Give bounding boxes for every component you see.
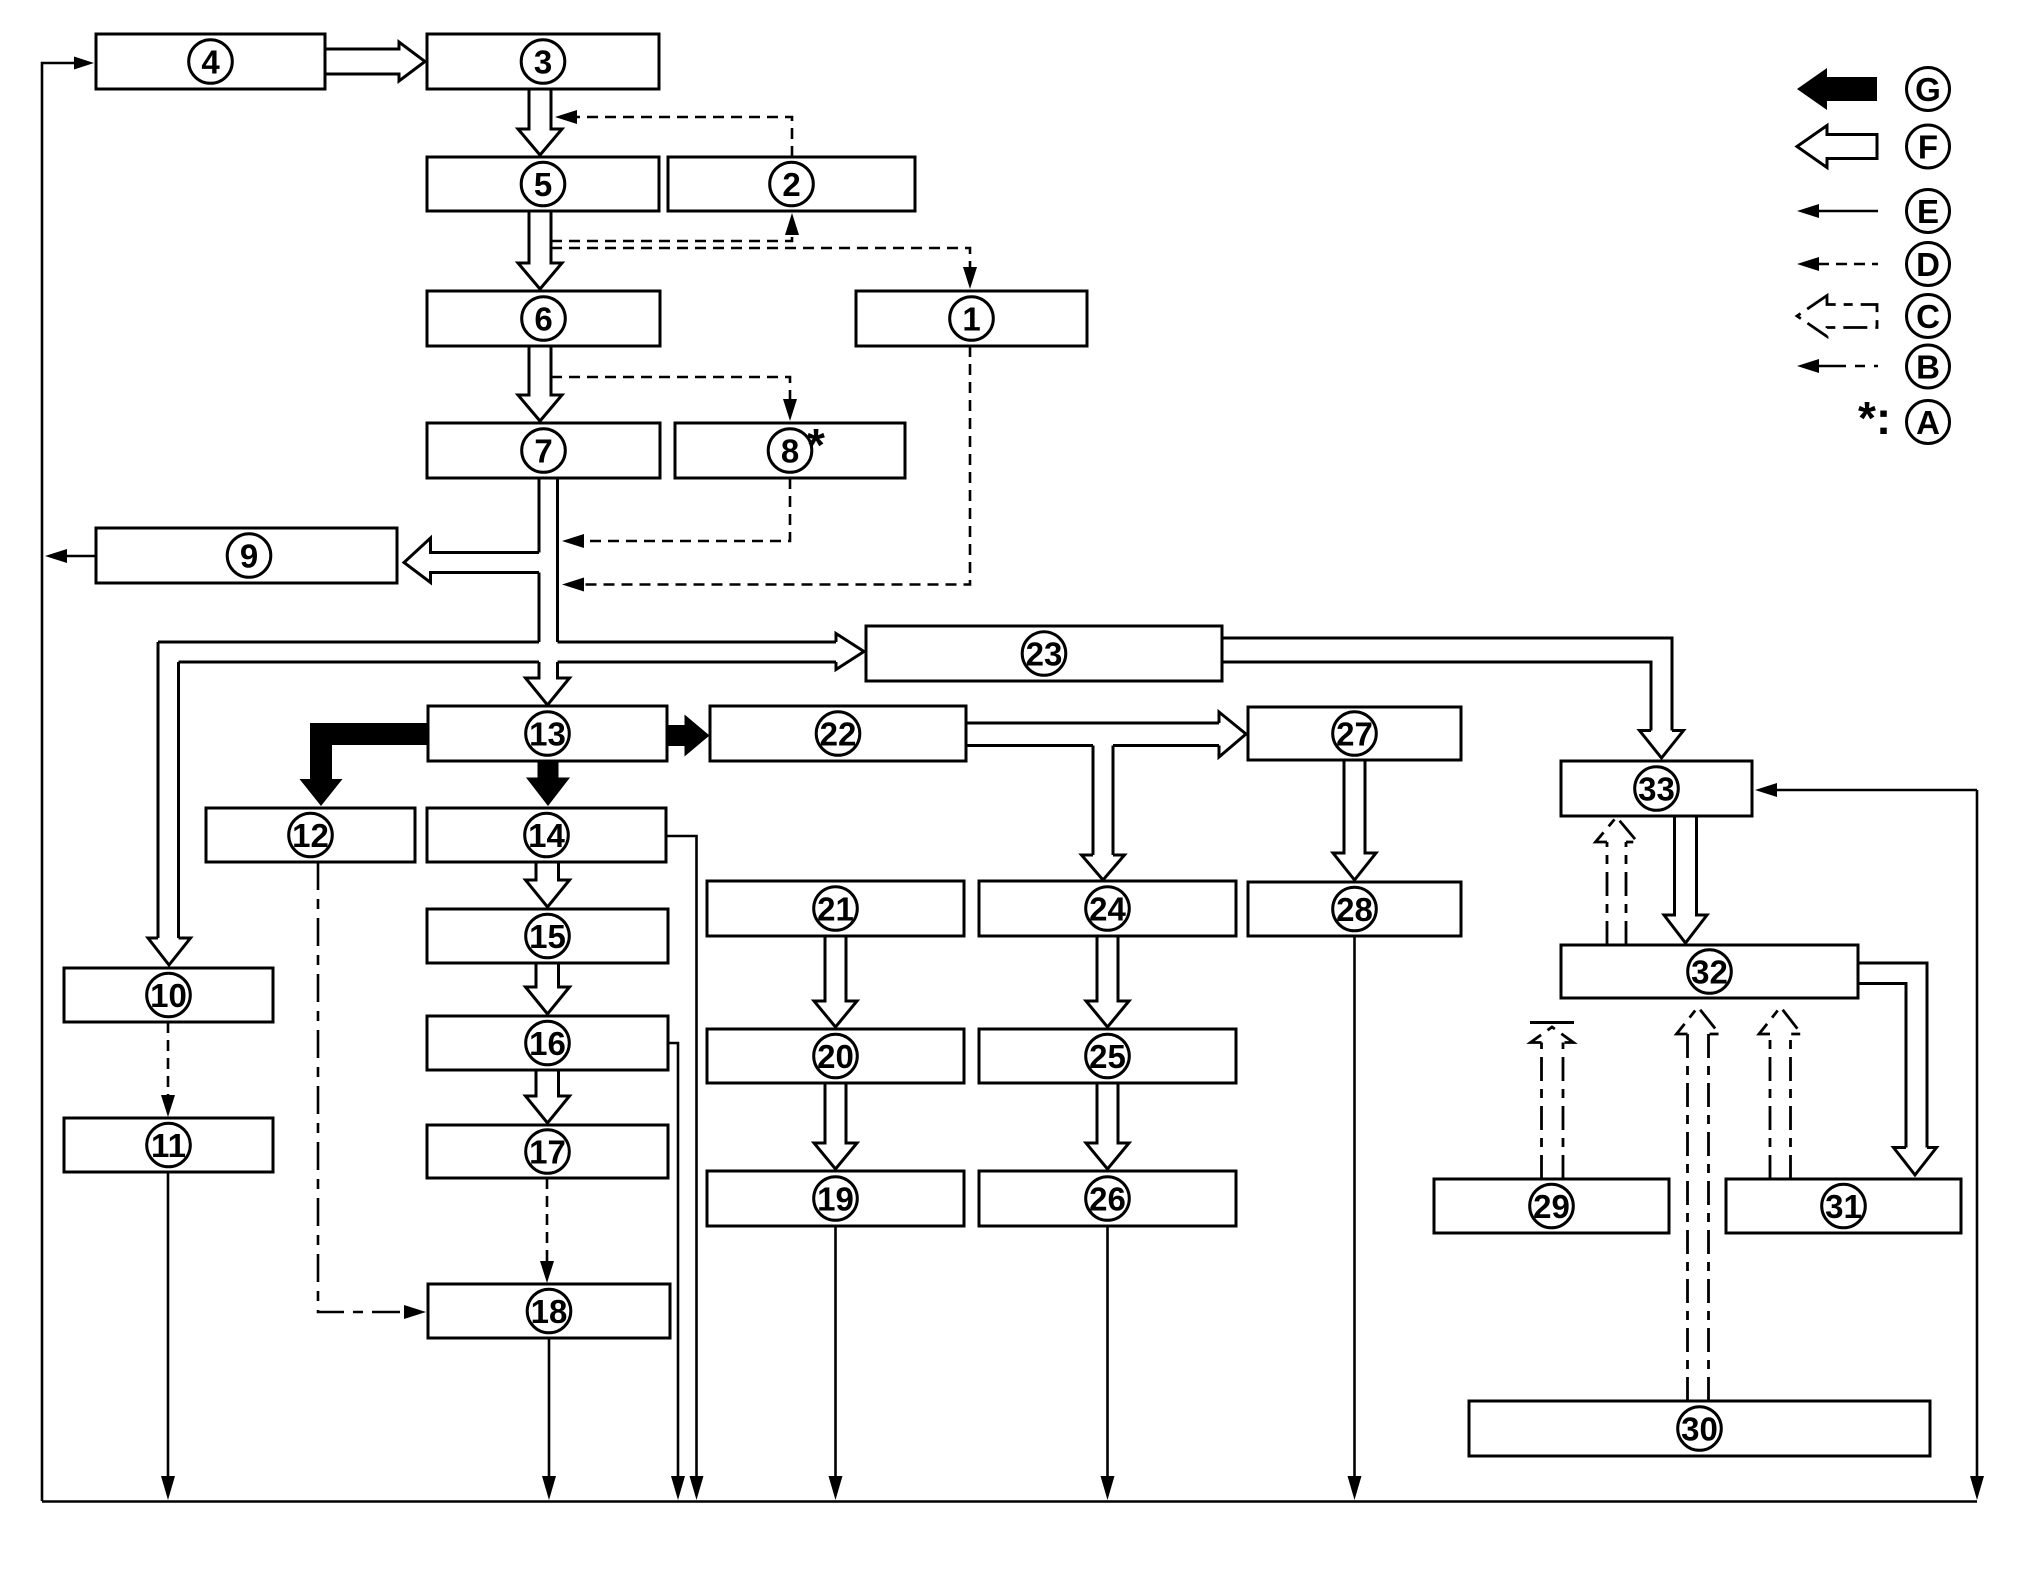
legend arrow F (1797, 126, 1877, 168)
arrow D pipe 5-6 to box 1 (551, 248, 970, 268)
left border line (42, 63, 86, 1501)
arrow F 20 to 19 (814, 1083, 857, 1169)
box 1 (856, 291, 1087, 346)
arrow D box 10 to box 11 (167, 1022, 170, 1096)
box 24 (979, 881, 1236, 936)
arrow F into box 13 (526, 662, 570, 705)
circle 25 (1086, 1034, 1130, 1078)
circle 32 (1688, 950, 1732, 994)
arrow F head into box 27 (1219, 712, 1246, 757)
pipe from box 7 down: right line (556, 478, 559, 642)
legend circle D (1907, 243, 1950, 286)
arrow D box 8 to pipe 7 (583, 478, 790, 541)
legend circle F (1907, 125, 1950, 168)
circle 18 (527, 1289, 571, 1333)
svg-text:17: 17 (529, 1134, 566, 1171)
dropper from box 14 (666, 836, 697, 1477)
box 2 (668, 157, 915, 211)
arrow G 13 to 12 (300, 723, 429, 806)
circle 7 (522, 429, 566, 473)
svg-text:10: 10 (150, 977, 187, 1014)
box 33 (1561, 761, 1752, 816)
svg-text:29: 29 (1533, 1188, 1570, 1225)
circle 10 (147, 973, 191, 1017)
svg-text:6: 6 (534, 301, 552, 338)
svg-text:5: 5 (534, 166, 552, 203)
svg-text:1: 1 (962, 301, 980, 338)
junction top line left (158, 641, 539, 644)
box 25 (979, 1029, 1236, 1083)
arrow D pipe 5-6 to box 2 (551, 234, 792, 241)
box 32 (1561, 945, 1858, 998)
junction bottom line right (558, 661, 837, 664)
box 13 (428, 706, 667, 761)
svg-text:22: 22 (820, 716, 857, 753)
arrow C box 30 to box 32 (1688, 1034, 1709, 1401)
bar terminator above box 29 (1530, 1021, 1574, 1024)
arrow F into box 9 (404, 538, 539, 583)
legend circle C (1907, 295, 1950, 338)
arrow F 33 to 32 (1664, 816, 1707, 943)
arrow F 27 to 28 (1333, 760, 1376, 880)
circle 22 (816, 712, 860, 756)
dropper from box 16 (668, 1043, 678, 1477)
circle 29 (1530, 1184, 1574, 1228)
arrow D box 2 to pipe 3-5 (576, 117, 792, 157)
circle 16 (526, 1021, 570, 1065)
svg-text:4: 4 (201, 44, 220, 81)
svg-text:8: 8 (781, 433, 799, 470)
svg-text:F: F (1918, 129, 1938, 166)
circle 14 (525, 813, 569, 857)
arrow G 13 to 22 (667, 715, 710, 757)
box 16 (427, 1016, 668, 1070)
arrow F 21 to 20 (814, 936, 857, 1027)
svg-text:18: 18 (531, 1293, 568, 1330)
arrow F head into box 10 (148, 938, 191, 965)
circle 30 (1678, 1407, 1722, 1451)
arrow F 5 to 6 (518, 211, 562, 289)
arrow F 25 to 26 (1086, 1083, 1129, 1169)
circle 26 (1086, 1177, 1130, 1221)
svg-text:20: 20 (817, 1038, 854, 1075)
svg-text:28: 28 (1336, 891, 1373, 928)
svg-text:33: 33 (1638, 771, 1675, 808)
circle 33 (1635, 767, 1679, 811)
circle 2 (770, 162, 814, 206)
arrow F 24 to 25 (1086, 936, 1129, 1027)
arrow F 16 to 17 (526, 1070, 570, 1123)
arrow C box 29 up to bar (1542, 1043, 1564, 1180)
circle 13 (526, 712, 570, 756)
legend arrow G (1797, 68, 1877, 110)
circle 3 (521, 40, 565, 84)
dropper from box 18 (548, 1338, 551, 1477)
svg-text:2: 2 (782, 166, 800, 203)
svg-text:25: 25 (1089, 1038, 1126, 1075)
circle 31 (1822, 1184, 1866, 1228)
svg-text:27: 27 (1336, 716, 1373, 753)
legend circle A (1907, 401, 1950, 444)
box 14 (427, 808, 666, 862)
svg-text:15: 15 (529, 918, 566, 955)
right loop vertical (1976, 790, 1979, 1477)
legend circle G (1907, 68, 1950, 111)
box 17 (427, 1125, 668, 1178)
box 12 (206, 808, 415, 862)
svg-text:23: 23 (1026, 636, 1063, 673)
svg-text:26: 26 (1089, 1181, 1126, 1218)
circle 8 (768, 429, 812, 473)
arrow F 15 to 16 (526, 963, 570, 1014)
circle 11 (147, 1123, 191, 1167)
legend arrow E (1814, 210, 1878, 213)
box 11 (64, 1118, 273, 1172)
circle 15 (526, 914, 570, 958)
svg-text:G: G (1915, 71, 1941, 108)
arrow F head into box 31 (1894, 1148, 1937, 1176)
circle 27 (1333, 712, 1377, 756)
circle 19 (814, 1177, 858, 1221)
arrow F head into box 33 (1640, 731, 1684, 759)
box 31 (1726, 1179, 1961, 1233)
svg-text:31: 31 (1825, 1188, 1862, 1225)
circle 4 (189, 40, 233, 84)
pipe from box 7 down: left line lower (538, 573, 541, 643)
svg-text:C: C (1916, 298, 1940, 335)
svg-text:A: A (1916, 404, 1940, 441)
svg-text:*: * (807, 419, 825, 471)
box 20 (707, 1029, 964, 1083)
dropper from box 19 (834, 1226, 837, 1477)
circle 28 (1333, 887, 1377, 931)
box 28 (1248, 882, 1461, 936)
box 8 (675, 423, 905, 478)
arrow E box 9 to left border (66, 555, 96, 558)
circle 1 (950, 297, 994, 341)
svg-text:16: 16 (529, 1025, 566, 1062)
svg-text:19: 19 (817, 1181, 854, 1218)
arrow G 13 to 14 (526, 761, 570, 806)
dropper from box 11 (167, 1172, 170, 1477)
legend arrow D (1818, 263, 1878, 266)
svg-text:B: B (1916, 349, 1940, 386)
svg-text:13: 13 (529, 716, 566, 753)
circle 20 (814, 1034, 858, 1078)
box 26 (979, 1171, 1236, 1226)
box 19 (707, 1171, 964, 1226)
svg-text:24: 24 (1089, 891, 1126, 928)
arrow F 3 to 5 (518, 89, 562, 155)
box 23 (866, 626, 1222, 681)
arrow F 22 to 27 shaft top (966, 722, 1219, 725)
pipe from box 23 right to box 33 (1222, 638, 1672, 731)
arrow E into box 33 (1776, 789, 1977, 792)
pipe from box 7 down: left line upper (538, 478, 541, 553)
circle 9 (227, 534, 271, 578)
dropper from box 28 (1353, 936, 1356, 1477)
svg-text:E: E (1917, 193, 1939, 230)
box 3 (427, 34, 659, 89)
box 15 (427, 909, 668, 963)
branch shaft down to box 10 (158, 642, 179, 938)
box 22 (710, 706, 966, 761)
dropper from box 26 (1106, 1226, 1109, 1477)
svg-text:12: 12 (292, 817, 329, 854)
circle 6 (522, 297, 566, 341)
svg-text:32: 32 (1691, 954, 1728, 991)
svg-text:7: 7 (534, 433, 552, 470)
box 7 (427, 423, 660, 478)
arrow F 22 to 27 shaft bottom segments (966, 744, 1219, 747)
legend circle E (1907, 190, 1950, 233)
arrow F 6 to 7 (518, 346, 562, 421)
arrow D pipe 6-7 to box 8 (551, 377, 790, 400)
arrow C box 31 to box 32 (1770, 1034, 1791, 1179)
circle 24 (1086, 887, 1130, 931)
junction bottom line left (179, 661, 540, 664)
svg-text:30: 30 (1681, 1411, 1718, 1448)
pipe from box 32 right to box 31 (1858, 963, 1927, 1148)
svg-text:D: D (1916, 246, 1940, 283)
box 29 (1434, 1179, 1669, 1233)
junction top line right (558, 641, 837, 644)
box 5 (427, 157, 659, 211)
arrow D box 1 to pipe 7 (583, 346, 970, 585)
arrowhead into box 4 (74, 57, 94, 70)
arrow B box 12 to box 18 (318, 862, 404, 1312)
box 18 (428, 1284, 670, 1338)
arrow F 14 to 15 (526, 862, 570, 907)
arrowhead box 9 to border (45, 549, 67, 563)
box 4 (96, 34, 325, 89)
box 30 (1469, 1401, 1930, 1456)
bottom rail (42, 1500, 1977, 1503)
arrow D box 17 to box 18 (546, 1178, 549, 1262)
svg-text:21: 21 (817, 891, 854, 928)
box 6 (427, 291, 660, 346)
circle 17 (526, 1130, 570, 1174)
circle 12 (289, 813, 333, 857)
svg-text:*:: *: (1858, 392, 1891, 444)
svg-text:3: 3 (534, 44, 552, 81)
legend circle B (1907, 345, 1950, 388)
arrow C 32 to 33 (1607, 842, 1626, 945)
arrow F 4 to 3 (325, 42, 425, 81)
svg-text:9: 9 (240, 538, 258, 575)
circle 5 (521, 162, 565, 206)
svg-text:14: 14 (528, 817, 565, 854)
circle 23 (1022, 632, 1066, 676)
box 9 (96, 528, 397, 583)
svg-text:11: 11 (151, 1127, 186, 1164)
box 10 (64, 968, 273, 1022)
circle 21 (814, 887, 858, 931)
branch shaft down to box 24 (1093, 746, 1113, 856)
legend arrow B (1818, 365, 1878, 368)
box 27 (1248, 707, 1461, 760)
box 21 (707, 881, 964, 936)
arrow F head into box 24 (1082, 855, 1125, 880)
arrow F head into box 23 (836, 634, 864, 670)
legend arrow C (1797, 296, 1877, 337)
